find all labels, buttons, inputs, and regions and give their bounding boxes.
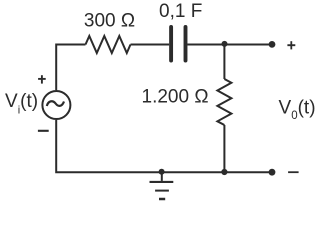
svg-text:V0(t): V0(t)	[279, 98, 316, 123]
node A junction dot	[222, 41, 228, 47]
node B junction dot (R2 to rail)	[221, 169, 227, 175]
- terminal dot	[269, 169, 276, 176]
svg-text:0,1 F: 0,1 F	[159, 1, 202, 22]
wire node A to + terminal	[224, 44, 272, 46]
wire top-left segment	[56, 45, 85, 91]
ground bars	[150, 182, 174, 199]
+ sign at output	[287, 44, 295, 46]
+ sign at source	[38, 78, 46, 80]
- sign at output	[288, 171, 299, 173]
- sign at source	[38, 130, 49, 132]
svg-text:1.200 Ω: 1.200 Ω	[142, 87, 209, 108]
wire R2 to bottom rail	[223, 125, 225, 172]
voltage source sine symbol	[47, 101, 64, 106]
+ terminal dot	[269, 41, 276, 48]
capacitor C1 right plate	[184, 27, 188, 61]
svg-text:Vi(t): Vi(t)	[5, 91, 38, 117]
voltage source U1 circle	[42, 91, 70, 119]
capacitor C1 left plate	[169, 27, 173, 61]
ground stub	[161, 172, 163, 181]
ground junction dot	[159, 169, 165, 175]
resistor R1 300 ohm zigzag	[86, 36, 131, 53]
wire resistor to capacitor	[131, 44, 170, 46]
wire source bottom to bottom rail	[56, 120, 272, 172]
wire node A down to R2	[223, 45, 225, 80]
svg-text:300 Ω: 300 Ω	[84, 11, 135, 32]
wire capacitor to node A	[187, 44, 224, 46]
resistor R2 1200 ohm vertical zigzag	[217, 79, 231, 125]
